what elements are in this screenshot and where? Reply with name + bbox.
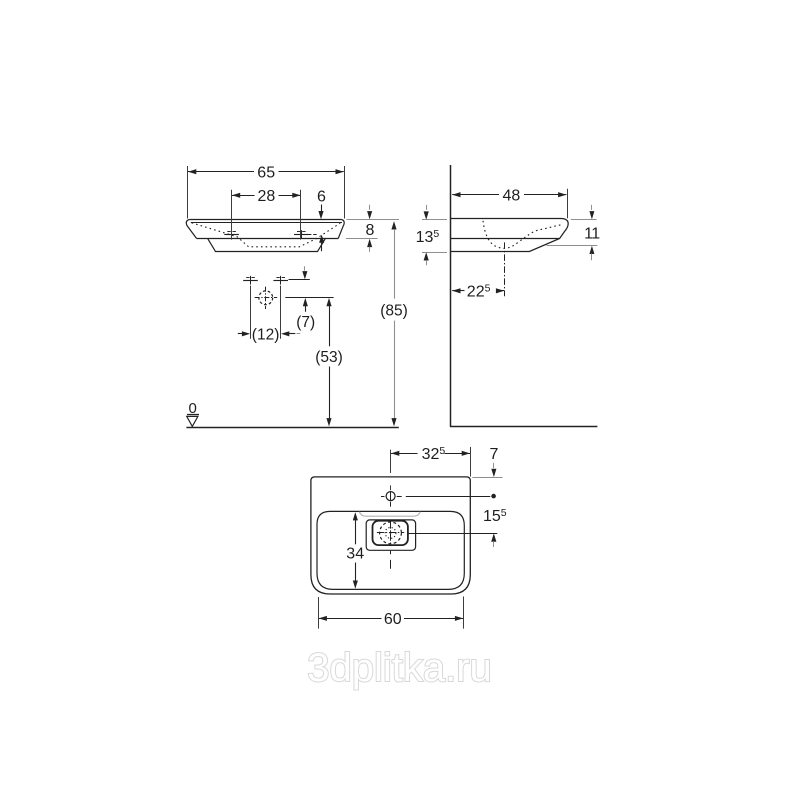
svg-text:155: 155 (483, 507, 507, 525)
svg-text:135: 135 (416, 228, 440, 246)
svg-text:48: 48 (503, 188, 521, 205)
svg-text:325: 325 (422, 445, 446, 463)
svg-text:60: 60 (384, 611, 402, 628)
svg-text:(12): (12) (252, 327, 280, 344)
svg-text:8: 8 (365, 222, 374, 239)
svg-text:(85): (85) (380, 303, 408, 320)
svg-text:(53): (53) (315, 349, 343, 366)
svg-text:6: 6 (317, 188, 326, 205)
svg-text:11: 11 (584, 226, 600, 243)
svg-text:225: 225 (467, 282, 491, 300)
svg-text:28: 28 (258, 188, 276, 205)
svg-text:3dplitka.ru: 3dplitka.ru (307, 646, 492, 690)
svg-text:(7): (7) (296, 314, 315, 331)
svg-text:65: 65 (257, 165, 275, 182)
svg-text:34: 34 (346, 546, 364, 563)
svg-text:7: 7 (489, 446, 498, 463)
